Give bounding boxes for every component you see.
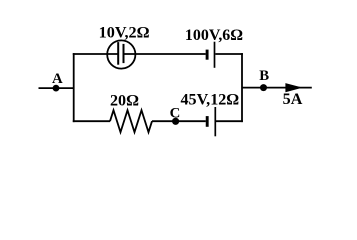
wire: bottom branch middle segment	[152, 120, 206, 122]
node C junction dot	[172, 118, 179, 125]
wire: top branch right segment	[215, 53, 243, 55]
svg-text:A: A	[52, 71, 63, 87]
cell G1 short plate	[123, 44, 125, 63]
svg-text:100V,6Ω: 100V,6Ω	[185, 27, 243, 44]
battery E2 (100V,6R) short thick plate	[206, 50, 209, 60]
wire: bottom branch right segment	[216, 120, 243, 122]
battery E2 long thin plate	[214, 42, 216, 68]
svg-text:10V,2Ω: 10V,2Ω	[99, 25, 150, 42]
resistor R1 20ohm zigzag	[110, 110, 152, 132]
wire: left bus vertical	[73, 53, 75, 122]
current direction arrow head	[285, 83, 302, 92]
battery E3 (45V,12R) short thick plate	[206, 116, 209, 127]
wire: top branch left segment	[73, 53, 118, 55]
cell G1 (10V,2R) circle body	[107, 40, 135, 68]
svg-text:20Ω: 20Ω	[110, 93, 139, 110]
wire: output from node B	[242, 87, 312, 89]
battery E3 long thin plate	[214, 107, 216, 136]
svg-text:C: C	[170, 106, 181, 122]
node A junction dot	[53, 85, 60, 92]
cell G1 long plate	[117, 42, 119, 65]
wire: right bus vertical	[241, 53, 243, 122]
svg-text:B: B	[259, 68, 269, 84]
node B junction dot	[260, 84, 267, 91]
svg-text:5A: 5A	[283, 91, 303, 108]
wire: bottom branch left segment	[73, 120, 110, 122]
svg-text:45V,12Ω: 45V,12Ω	[181, 91, 240, 108]
wire: input stub to node A	[39, 87, 74, 89]
wire: top branch middle segment	[125, 53, 206, 55]
